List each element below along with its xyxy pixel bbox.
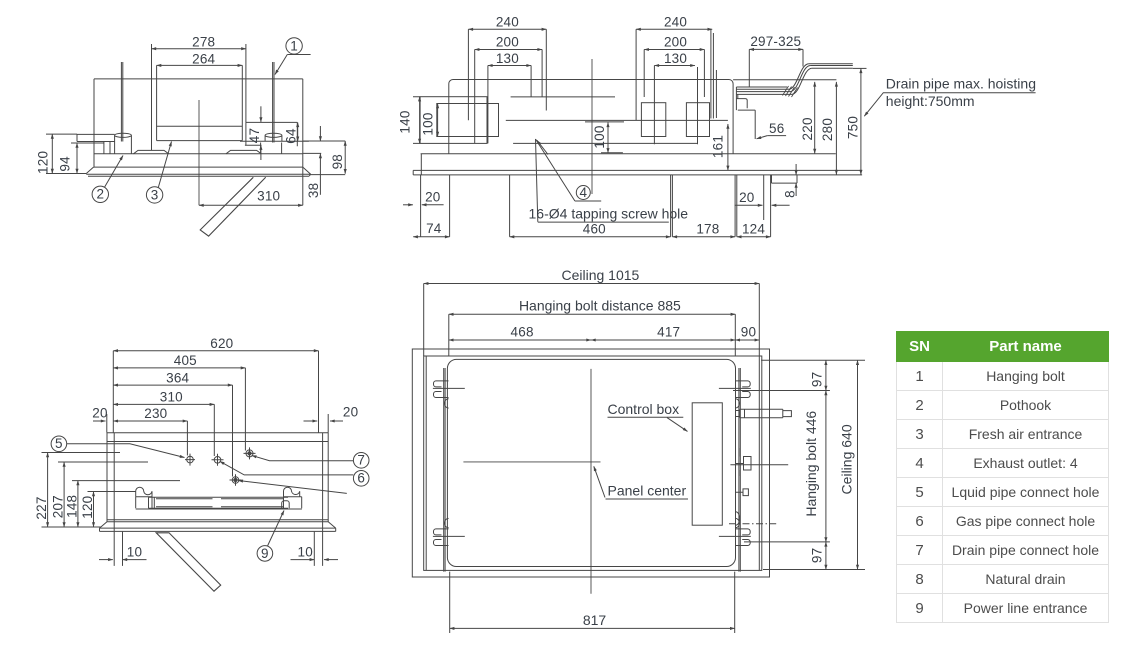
svg-text:16-Ø4 tapping screw hole: 16-Ø4 tapping screw hole [529,206,689,222]
svg-text:220: 220 [800,117,815,140]
drain pipe S-bend [789,64,812,95]
dimension 8 [795,164,797,175]
dimension 310 [199,204,303,206]
dash-dot line [729,523,776,525]
svg-text:227: 227 [34,496,49,519]
svg-text:124: 124 [742,221,765,236]
circled 6 [353,471,369,487]
svg-text:Control box: Control box [608,401,680,417]
dimension 240 left [468,28,546,30]
svg-text:90: 90 [741,325,756,340]
bottom extension lines [421,175,771,237]
drain pan bumps on flange [134,150,262,153]
VIEW 4: plan view with ceiling opening (bottom-middle) [412,267,865,633]
dimension 161 [727,124,729,170]
hanging bolt bracket bottom-left [434,529,449,546]
svg-text:Panel center: Panel center [608,483,687,499]
dimension 417 [591,339,735,341]
svg-text:140: 140 [398,110,413,133]
exhaust duct flange box left [420,97,487,144]
leader for 5 [67,444,185,458]
leader for 7 [252,456,353,461]
dimension 278 [152,44,246,150]
hanging bolt lines [114,433,322,532]
pipe clamp hatch [783,86,798,97]
dimension 227 [47,453,49,528]
svg-text:98: 98 [330,154,345,169]
dimension 280 [835,82,837,175]
control box [692,403,722,525]
VIEW 2: side view of indoor unit (top-middle) [398,15,1036,237]
drain pipe bundle horizontal [736,87,791,94]
dimension 47 [260,106,262,122]
dimension 90 [735,339,759,341]
svg-text:178: 178 [696,221,719,236]
panel rect [447,359,735,566]
svg-text:120: 120 [80,496,95,519]
hanging bolt bracket top-left [434,381,449,398]
svg-text:Ceiling 1015: Ceiling 1015 [561,267,639,283]
dimension 98 [344,141,346,174]
svg-text:120: 120 [36,151,51,174]
dimension 468 [449,339,591,341]
leader for 3 [158,142,171,188]
bottom panel [413,154,862,175]
dimension 100 left [437,104,439,137]
svg-text:405: 405 [174,353,197,368]
svg-text:Hanging bolt 446: Hanging bolt 446 [803,411,819,517]
dimension hanging bolt distance 885 [449,313,736,315]
svg-text:460: 460 [583,221,606,236]
dimension 240 right [636,28,712,30]
drain pipe top run [809,64,853,68]
dimension 220 [814,82,816,153]
pothook cup left [115,133,132,154]
bottom flange [100,522,336,532]
hanging bolt bracket top-right [735,381,750,398]
tapping screw leaders [536,139,602,222]
exhaust duct box right A [641,103,665,137]
svg-text:Drain pipe max. hoisting: Drain pipe max. hoisting [886,75,1036,91]
dimension 20 left [422,204,444,206]
svg-text:148: 148 [65,495,80,518]
spring pedestal right [284,497,302,509]
pothook cup right [265,133,282,141]
svg-text:20: 20 [92,405,107,420]
inner shelf line [107,509,328,520]
dimension 10 right [314,532,322,566]
power line entrance cap [282,501,290,509]
svg-text:38: 38 [306,183,321,198]
unit body [107,433,328,522]
circled 7 [353,453,369,469]
dimension 56 [767,135,786,137]
spring right [284,487,300,497]
circled 1 [286,38,302,54]
dimension 178 [672,236,735,238]
duct extension lines right group [636,29,716,144]
natural drain lip [772,175,798,183]
dimension 97 top [825,360,827,390]
circled 5 [51,436,67,452]
spring pedestal left [136,497,152,509]
hanging bolt right [273,62,274,143]
dimension 100 center [585,122,624,153]
circled 9 [257,546,273,562]
body top extension line right [733,79,836,81]
svg-text:Hanging bolt distance 885: Hanging bolt distance 885 [519,297,681,313]
leader for 2 [105,156,124,188]
dimension 148 [77,481,79,527]
liquid pipe connect hole 5 [187,456,194,463]
panel edge arc [736,512,740,526]
dimension 120 [51,134,53,173]
drain pipe connection stub [736,409,792,418]
svg-text:6: 6 [357,471,365,486]
svg-text:64: 64 [284,128,299,144]
svg-text:417: 417 [657,325,680,340]
liquid pipe fitting [736,489,749,496]
body center line [591,59,593,194]
svg-text:20: 20 [739,190,754,205]
dimension 130 right [654,65,695,67]
gas pipe fitting [730,448,788,476]
dimension 120 [93,492,95,528]
dimension 200 right [644,49,704,51]
svg-text:97: 97 [809,548,824,563]
parts table [896,331,1109,623]
dimension 364 [113,384,232,386]
svg-text:130: 130 [496,51,519,66]
svg-text:278: 278 [192,35,215,50]
right extension lines [303,141,345,175]
svg-text:20: 20 [343,404,358,419]
svg-text:74: 74 [426,221,442,236]
svg-text:9: 9 [261,546,269,561]
svg-text:94: 94 [57,156,72,172]
svg-text:8: 8 [783,190,798,198]
exhaust duct box right B [686,103,709,137]
VIEW 3: front view with pipe hole positions (bottom-left) [34,336,369,591]
drain note leader [864,93,1035,117]
svg-text:310: 310 [257,189,280,204]
dimension 130 left [488,65,531,67]
svg-text:10: 10 [297,545,312,560]
pothook mounting plate right [240,122,309,146]
hanging bolt bracket bottom-right [735,529,750,546]
svg-text:5: 5 [55,436,63,451]
circled 3 [146,187,162,203]
pipe outlet step [736,94,755,139]
svg-text:264: 264 [192,51,215,66]
svg-text:130: 130 [664,51,687,66]
dimension 405 [113,367,245,369]
svg-text:200: 200 [496,35,519,50]
svg-text:height:750mm: height:750mm [886,93,975,109]
svg-text:364: 364 [166,370,189,385]
duct extension lines left group [468,29,546,143]
dimension 38 [319,126,321,141]
svg-text:10: 10 [127,545,142,560]
dimension 140 [419,97,421,144]
dimension 20 right [735,204,763,206]
dimension 10 left [114,532,122,566]
dimension Ceiling 640 [857,360,859,569]
unit body rect [424,356,762,570]
svg-text:310: 310 [160,390,183,405]
dimension Ceiling 1015 [424,283,760,285]
dimension 297-325 [749,48,803,50]
svg-text:Ceiling 640: Ceiling 640 [839,424,855,494]
svg-text:161: 161 [711,135,726,158]
svg-text:240: 240 [664,15,687,30]
svg-text:56: 56 [769,121,784,136]
fan section box [157,65,243,140]
dimension 230 [113,420,187,422]
dimension 74 [413,236,449,238]
exhaust duct inner box left [437,104,499,137]
svg-text:817: 817 [583,612,607,628]
svg-text:280: 280 [820,118,835,141]
internal structure lines [506,97,728,143]
pothook pedestal right [261,143,282,154]
svg-text:4: 4 [579,185,587,200]
vertical center line [198,100,200,205]
spring left [136,487,152,497]
dimension 64 [297,122,299,141]
unit body outline [449,79,733,153]
svg-text:750: 750 [846,116,861,139]
dimension 124 [737,236,771,238]
unit body outline [94,79,303,205]
dimension hanging bolt 446 [825,391,827,542]
svg-text:240: 240 [496,15,519,30]
extension lines down to features [107,351,328,477]
dimension 200 left [475,49,542,51]
svg-text:97: 97 [809,372,824,387]
lower connect hole [232,477,239,484]
svg-text:2: 2 [96,187,104,202]
dimension 310 [113,403,214,405]
hanging bolt extension lines [444,314,741,571]
leader for 1 [275,55,287,75]
gas pipe connect hole 6 [214,457,221,464]
dimension 94 [76,143,78,174]
dimension 460 [510,236,671,238]
drain pipe stub diagonal [200,177,266,236]
svg-text:3: 3 [151,187,159,202]
dimension 620 [113,350,318,352]
dimension 264 [157,64,243,66]
circled 2 [92,186,108,202]
circled 4 [576,186,590,200]
bottom panel flange [86,154,310,176]
svg-text:100: 100 [421,112,436,135]
svg-text:468: 468 [511,325,534,340]
dimension 207 [63,462,65,527]
hanging bolt left [121,62,122,142]
drain pipe stub diagonal [156,533,221,591]
ceiling opening rect [412,349,769,577]
svg-text:200: 200 [664,35,687,50]
dimension 97 bottom [825,542,827,570]
svg-text:207: 207 [51,495,66,518]
leader from lower hole [238,481,346,494]
VIEW 1: front view of indoor unit (top-left) [36,35,346,236]
svg-text:100: 100 [592,125,607,148]
drain pipe connect hole 7 [246,450,253,457]
svg-text:297-325: 297-325 [750,34,801,49]
filter / electric box rail [149,497,289,508]
svg-text:47: 47 [247,128,262,143]
pothook bracket left [77,134,115,153]
svg-text:7: 7 [357,453,365,468]
svg-text:20: 20 [425,189,440,204]
leader for 9 [268,511,285,547]
svg-text:1: 1 [290,38,298,53]
svg-text:230: 230 [144,406,167,421]
svg-text:620: 620 [210,336,233,351]
leader for 6 [220,461,353,475]
dimension 750 [853,67,867,69]
panel center lines [463,369,600,594]
right extension lines [733,360,865,569]
dimension 817 [450,572,735,633]
